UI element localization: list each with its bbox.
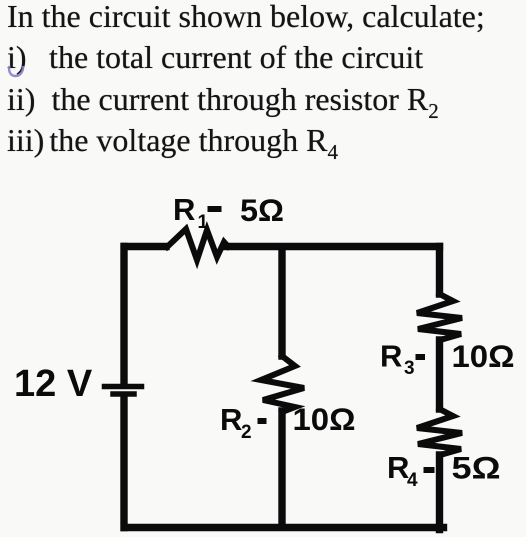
bottom wire	[124, 524, 443, 531]
right wire lower	[436, 455, 443, 530]
svg-text:R: R	[380, 339, 402, 374]
top wire left segment	[125, 243, 167, 250]
label R1 = 5ohm	[173, 192, 284, 233]
left wire upper	[120, 247, 127, 385]
svg-text:1: 1	[198, 212, 209, 233]
resistor R3	[417, 294, 462, 340]
svg-text:R: R	[220, 402, 242, 437]
right wire middle	[436, 340, 443, 409]
svg-text:2: 2	[241, 422, 252, 443]
left wire lower	[120, 397, 127, 528]
label R4 = 5ohm	[387, 450, 501, 492]
svg-text:R: R	[173, 192, 195, 227]
svg-text:10Ω: 10Ω	[293, 401, 356, 437]
svg-text:5Ω: 5Ω	[240, 192, 284, 228]
battery B1 long plate	[105, 384, 142, 390]
svg-text:3: 3	[404, 358, 415, 379]
middle wire lower	[278, 411, 285, 527]
svg-text:12 V: 12 V	[14, 363, 93, 405]
svg-text:5Ω: 5Ω	[452, 450, 501, 486]
middle wire upper	[278, 247, 285, 356]
label 12 V	[14, 363, 93, 405]
resistor R4	[417, 409, 462, 455]
right wire upper	[436, 247, 443, 295]
question text	[7, 0, 485, 161]
battery B1 short plate	[113, 391, 134, 397]
resistor R2	[261, 356, 304, 412]
label R2 = 10ohm	[220, 401, 356, 443]
resistor R1	[167, 229, 228, 260]
label R3 = 10ohm	[380, 338, 515, 379]
top wire right segment	[226, 243, 440, 250]
svg-text:10Ω: 10Ω	[452, 338, 515, 374]
svg-text:4: 4	[407, 470, 418, 491]
